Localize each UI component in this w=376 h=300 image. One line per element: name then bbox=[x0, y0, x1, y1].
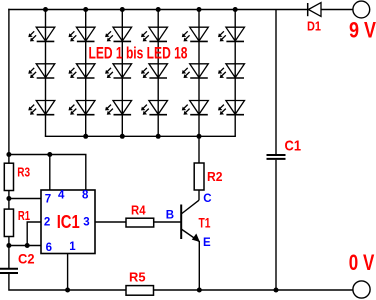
junction LED bottom rail col 4 bbox=[156, 134, 161, 139]
svg-text:C2: C2 bbox=[18, 251, 35, 266]
LED 5 bbox=[182, 27, 209, 41]
svg-text:2: 2 bbox=[44, 216, 50, 228]
junction top rail col 4 bbox=[156, 7, 161, 12]
wire right rail upper (to C1) bbox=[275, 10, 277, 155]
transistor Q1 base bar bbox=[180, 205, 182, 240]
wire pin 6 bbox=[9, 245, 41, 247]
capacitor C2 bbox=[0, 269, 18, 273]
junction pin 4 on supply rail bbox=[47, 152, 52, 157]
svg-text:6: 6 bbox=[46, 242, 52, 254]
LED 3 bbox=[105, 27, 132, 41]
svg-text:IC1: IC1 bbox=[57, 211, 80, 232]
svg-text:D1: D1 bbox=[307, 18, 321, 33]
junction emitter on bottom rail bbox=[197, 288, 202, 293]
svg-text:B: B bbox=[166, 209, 174, 221]
svg-text:C: C bbox=[203, 193, 211, 205]
LED 16 bbox=[141, 101, 168, 115]
terminal 9V bbox=[353, 1, 370, 18]
junction C1 on bottom rail bbox=[274, 288, 279, 293]
transistor Q1 collector bbox=[181, 200, 199, 214]
junction pin 2 drop on pin 6 wire bbox=[25, 243, 30, 248]
LED 10 bbox=[141, 64, 168, 78]
svg-text:8: 8 bbox=[82, 190, 89, 202]
diode D1 bbox=[308, 3, 321, 17]
junction pin 7 on left wire bbox=[6, 196, 11, 201]
wire R4 to base bbox=[154, 221, 181, 223]
svg-text:4: 4 bbox=[58, 190, 65, 202]
LED 15 bbox=[105, 101, 132, 115]
wire diode to 9V terminal bbox=[321, 9, 353, 11]
svg-text:7: 7 bbox=[45, 194, 51, 206]
junction top rail col 3 bbox=[120, 7, 125, 12]
wire LED column 3 bbox=[121, 10, 123, 137]
LED 18 bbox=[218, 101, 245, 115]
svg-text:0 V: 0 V bbox=[349, 250, 375, 275]
svg-text:1: 1 bbox=[69, 241, 76, 253]
junction top rail col 2 bbox=[83, 7, 88, 12]
LED 8 bbox=[69, 64, 96, 78]
wire R1 to C2 bbox=[8, 237, 10, 269]
svg-text:R2: R2 bbox=[207, 169, 223, 184]
wire LED rail down to R2 bbox=[198, 136, 200, 163]
junction LED bottom rail col 2 bbox=[83, 134, 88, 139]
wire pin 4 drop bbox=[49, 155, 51, 191]
junction top rail col 1 bbox=[43, 7, 48, 12]
wire bottom rail right of R5 bbox=[154, 289, 353, 291]
junction top rail col 5 bbox=[197, 7, 202, 12]
wire R3 to R1 bbox=[8, 191, 10, 210]
wire top rail bbox=[9, 9, 308, 11]
junction LED bottom rail col 5 bbox=[197, 134, 202, 139]
wire LED column 6 bbox=[234, 10, 236, 137]
wire left border down to R3 bbox=[8, 10, 10, 164]
LED 1 bbox=[28, 27, 55, 41]
IC U1 (555) bbox=[41, 190, 95, 254]
svg-text:9 V: 9 V bbox=[349, 18, 376, 43]
wire right rail lower (C1 to bottom) bbox=[275, 160, 277, 290]
junction LED bottom rail col 3 bbox=[120, 134, 125, 139]
LED 13 bbox=[28, 101, 55, 115]
LED 17 bbox=[182, 101, 209, 115]
junction pin 1 on bottom rail bbox=[65, 288, 70, 293]
LED 12 bbox=[218, 64, 245, 78]
svg-text:R3: R3 bbox=[17, 165, 30, 180]
svg-text:3: 3 bbox=[83, 216, 89, 228]
wire pin 7 bbox=[9, 198, 41, 200]
svg-text:LED 1 bis LED 18: LED 1 bis LED 18 bbox=[89, 45, 188, 63]
wire pin 1 bbox=[67, 254, 69, 291]
resistor R2 bbox=[194, 163, 204, 190]
svg-text:R1: R1 bbox=[18, 208, 30, 223]
transistor Q1 emitter arrow bbox=[192, 234, 200, 243]
svg-text:R5: R5 bbox=[129, 270, 146, 285]
svg-text:R4: R4 bbox=[131, 203, 146, 218]
wire LED column 2 bbox=[85, 10, 87, 137]
junction top rail col 6 bbox=[233, 7, 238, 12]
wire pin 2 bbox=[27, 222, 41, 246]
wire pin 3 to R4 bbox=[95, 221, 126, 223]
resistor R4 bbox=[126, 218, 154, 227]
svg-text:E: E bbox=[203, 237, 211, 249]
LED 14 bbox=[69, 101, 96, 115]
LED 7 bbox=[28, 64, 55, 78]
resistor R1 bbox=[4, 209, 13, 236]
LED 6 bbox=[218, 27, 245, 41]
resistor R5 bbox=[126, 286, 154, 296]
wire R2 to collector bbox=[198, 190, 200, 200]
terminal 0V bbox=[353, 281, 370, 298]
svg-text:T1: T1 bbox=[199, 215, 211, 231]
wire LED column 4 bbox=[157, 10, 159, 137]
svg-text:C1: C1 bbox=[285, 138, 302, 155]
LED 2 bbox=[69, 27, 96, 41]
wire LED bottom rail bbox=[46, 135, 236, 137]
wire C2 to bottom rail corner bbox=[9, 274, 126, 291]
wire LED column 5 bbox=[198, 10, 200, 137]
wire supply rail to pins 4 and 8 bbox=[9, 155, 86, 191]
resistor R3 bbox=[4, 163, 13, 190]
transistor Q1 emitter bbox=[181, 229, 199, 290]
wire LED column 1 bbox=[45, 10, 47, 137]
junction supply rail left bbox=[6, 152, 11, 157]
junction pin 6 on left wire bbox=[6, 243, 11, 248]
capacitor C1 bbox=[267, 155, 286, 159]
LED 9 bbox=[105, 64, 132, 78]
LED 11 bbox=[182, 64, 209, 78]
LED 4 bbox=[141, 27, 168, 41]
